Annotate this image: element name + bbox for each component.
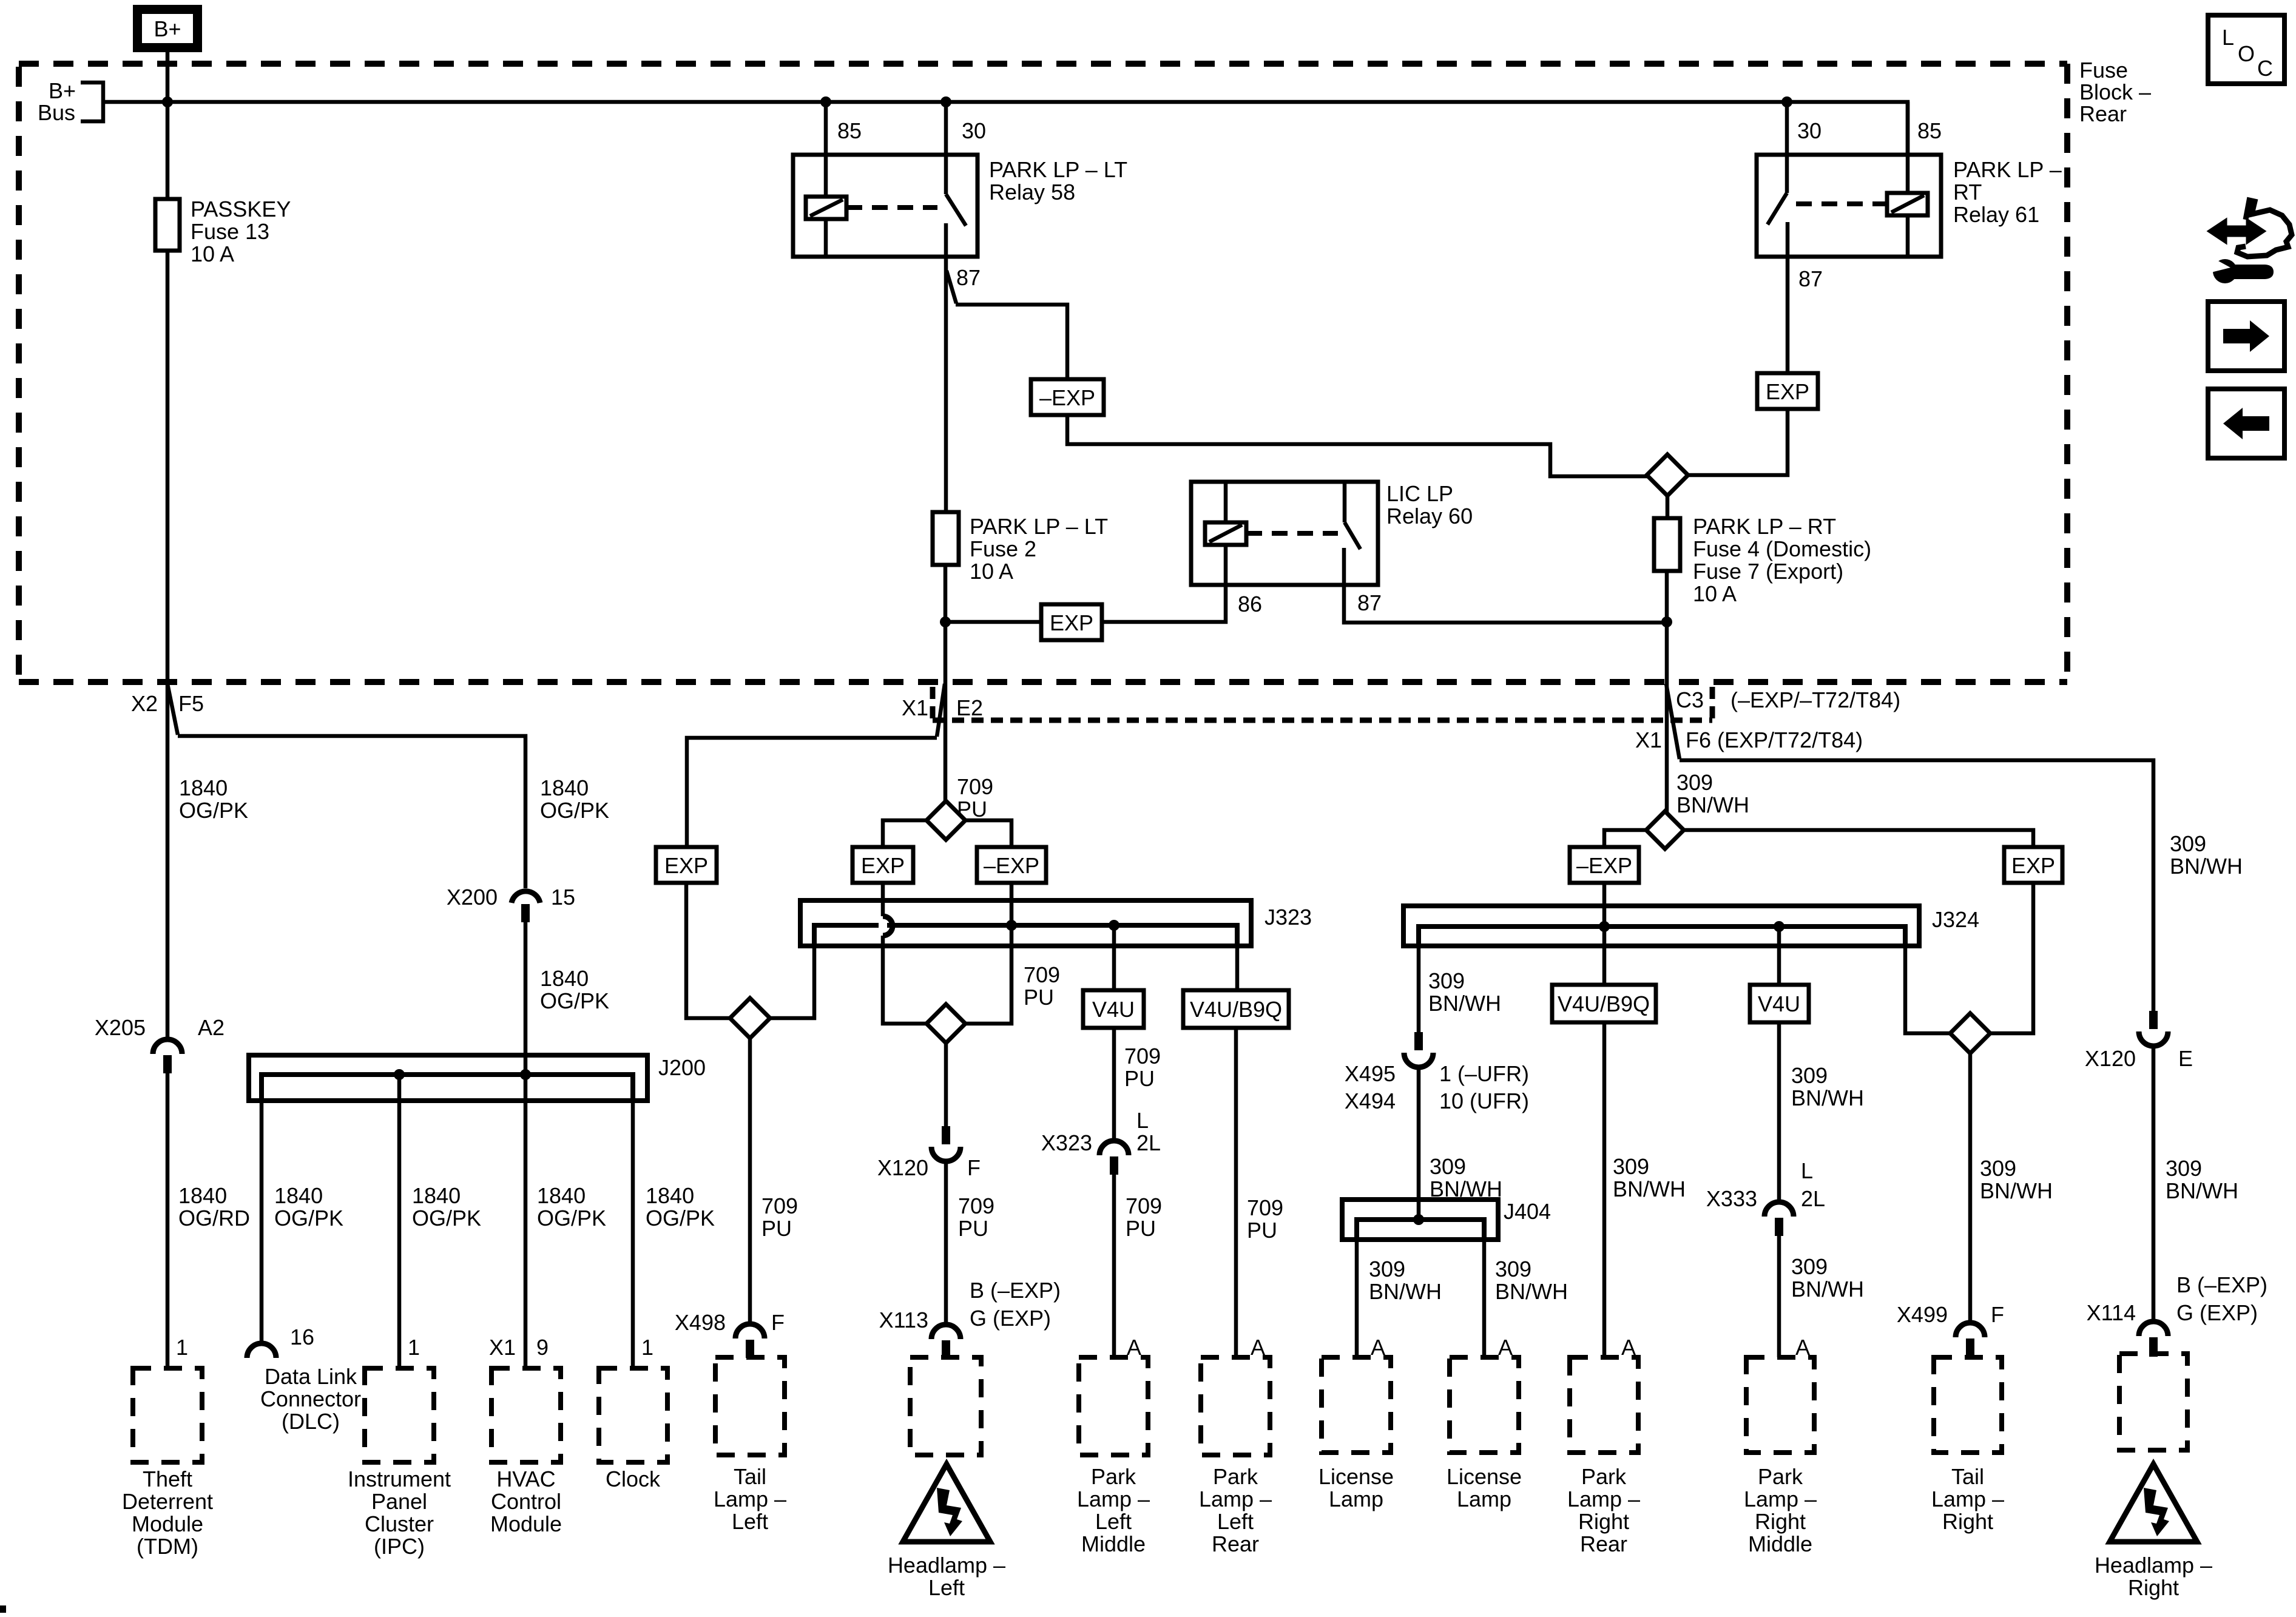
wire J200 through to HVAC — [524, 1075, 528, 1368]
svg-text:Fuse 7 (Export): Fuse 7 (Export) — [1693, 559, 1843, 584]
splice diamond below E2 — [927, 801, 965, 840]
svg-text:J404: J404 — [1504, 1199, 1551, 1224]
svg-text:Right: Right — [1942, 1509, 1993, 1534]
svg-text:709: 709 — [957, 774, 993, 799]
wire fuse2 down through E2 to diamond — [944, 565, 948, 802]
page artifact dot bottom-left — [0, 1605, 6, 1613]
svg-text:Left: Left — [1217, 1509, 1254, 1534]
svg-text:Fuse 2: Fuse 2 — [970, 536, 1036, 561]
wire X120E down to X114 — [2152, 1046, 2156, 1322]
junction HVAC on J200 bus — [520, 1069, 531, 1080]
wire EXP down and left to park-rt diamond — [1687, 409, 1788, 475]
wire C3 diamond right leg to EXP — [1684, 830, 2033, 847]
svg-text:Fuse: Fuse — [2079, 58, 2128, 83]
junction relay58 pin85 on bus — [820, 96, 831, 107]
wire -EXP down through J323 to headlamp diamond — [964, 883, 1011, 1024]
svg-text:X120: X120 — [2085, 1046, 2136, 1071]
splice diamond below C3 — [1646, 811, 1684, 849]
svg-text:Right: Right — [1755, 1509, 1806, 1534]
svg-text:Connector: Connector — [260, 1386, 361, 1411]
svg-text:O: O — [2238, 41, 2255, 66]
wire J200 left end to DLC — [260, 1075, 264, 1343]
wire -EXP down through J324 to V4U/B9Q — [1602, 883, 1607, 985]
svg-text:HVAC: HVAC — [496, 1467, 555, 1491]
wire EXP(tail) down to X498 diamond — [686, 883, 731, 1018]
wire J323 right end to V4U/B9Q — [1235, 925, 1240, 990]
svg-text:Right: Right — [2128, 1575, 2179, 1600]
wire J324 left end down to X495 — [1417, 927, 1421, 1033]
svg-text:309: 309 — [1428, 968, 1465, 993]
svg-text:709: 709 — [761, 1193, 798, 1218]
svg-text:–EXP: –EXP — [1576, 853, 1632, 878]
relay 58 PARK LP - LT : pin 85 wire — [824, 102, 828, 155]
svg-text:OG/PK: OG/PK — [179, 798, 248, 823]
junction V4U on J323 bus — [1109, 920, 1119, 931]
svg-text:309: 309 — [1495, 1257, 1531, 1281]
svg-text:–EXP: –EXP — [1039, 385, 1095, 410]
svg-text:16: 16 — [290, 1325, 314, 1349]
svg-text:BN/WH: BN/WH — [1980, 1178, 2053, 1203]
svg-text:BN/WH: BN/WH — [1613, 1176, 1686, 1201]
wire EXP(headlamp) down through J323 hop — [881, 883, 885, 916]
svg-text:OG/RD: OG/RD — [178, 1206, 250, 1230]
svg-text:87: 87 — [1798, 266, 1823, 291]
component box Theft Deterrent Module — [133, 1368, 202, 1462]
svg-text:X1: X1 — [489, 1335, 516, 1360]
svg-text:10 A: 10 A — [1693, 581, 1737, 606]
junction block J404 — [1342, 1200, 1498, 1240]
svg-text:10 (UFR): 10 (UFR) — [1439, 1089, 1529, 1113]
wire J200 right end to Clock — [631, 1075, 635, 1368]
svg-text:PU: PU — [1126, 1216, 1156, 1241]
warning triangle headlamp left — [903, 1464, 990, 1542]
relay 58 PARK LP - LT body — [793, 155, 977, 257]
svg-text:X205: X205 — [95, 1015, 146, 1040]
svg-text:BN/WH: BN/WH — [1791, 1085, 1864, 1110]
wire EXP down to tail-right diamond — [1990, 883, 2033, 1033]
fuse block rear dashed border: left edge — [16, 67, 22, 682]
svg-text:A: A — [1371, 1335, 1385, 1360]
svg-text:License: License — [1447, 1464, 1522, 1489]
option box -EXP (left headlamp relay path) — [1031, 379, 1104, 415]
svg-text:Headlamp –: Headlamp – — [888, 1553, 1005, 1578]
svg-text:Relay 61: Relay 61 — [1953, 202, 2039, 227]
option box V4U/B9Q (park lamp right rear) — [1552, 985, 1656, 1022]
svg-text:(–EXP/–T72/T84): (–EXP/–T72/T84) — [1730, 687, 1900, 712]
svg-text:2L: 2L — [1801, 1186, 1825, 1211]
svg-text:F: F — [771, 1310, 785, 1335]
svg-text:BN/WH: BN/WH — [1428, 991, 1501, 1016]
relay 58 pin 30 wire — [944, 102, 948, 155]
junction license feed on fuse4 wire — [1661, 616, 1672, 627]
svg-text:L: L — [2222, 25, 2234, 50]
svg-text:1840: 1840 — [540, 966, 589, 991]
svg-text:X113: X113 — [879, 1308, 928, 1332]
svg-text:OG/PK: OG/PK — [412, 1206, 481, 1230]
inner dotted harness boundary (-EXP/-T72/T84) — [930, 687, 936, 720]
wire -EXP down and right to park-rt diamond — [1067, 415, 1648, 476]
svg-text:X120: X120 — [877, 1155, 928, 1180]
splice diamond headlamp left — [927, 1004, 965, 1043]
wire fuse4 C3 down to diamond — [1665, 684, 1669, 813]
svg-text:Park: Park — [1758, 1464, 1803, 1489]
svg-text:Lamp –: Lamp – — [1931, 1487, 2004, 1511]
svg-text:PU: PU — [1247, 1218, 1277, 1243]
svg-text:Lamp: Lamp — [1329, 1487, 1383, 1511]
svg-text:Clock: Clock — [606, 1467, 661, 1491]
svg-text:V4U: V4U — [1092, 997, 1135, 1022]
connector X120 pin E — [2149, 1011, 2158, 1029]
svg-text:1840: 1840 — [179, 775, 228, 800]
svg-text:1 (–UFR): 1 (–UFR) — [1439, 1061, 1529, 1086]
svg-text:B (–EXP): B (–EXP) — [970, 1278, 1061, 1303]
relay 58 switch — [946, 155, 966, 257]
svg-text:License: License — [1319, 1464, 1394, 1489]
connector slant at C3/F6 — [1666, 684, 1680, 759]
connector X498 pin F — [735, 1324, 765, 1338]
svg-text:Data Link: Data Link — [265, 1364, 357, 1389]
legend hand-adjust icon double arrow — [2209, 220, 2264, 242]
svg-text:Theft: Theft — [143, 1467, 192, 1491]
svg-text:L: L — [1801, 1158, 1813, 1183]
option box EXP (tail lamp left path) — [656, 847, 717, 883]
component box Headlamp Right — [2119, 1354, 2187, 1450]
svg-text:X1: X1 — [902, 695, 928, 720]
svg-text:1840: 1840 — [412, 1183, 461, 1208]
svg-text:Module: Module — [490, 1511, 562, 1536]
wire J323 left end down to X498 diamond — [769, 925, 814, 1018]
svg-text:J324: J324 — [1932, 907, 1979, 932]
svg-text:Control: Control — [491, 1489, 561, 1514]
svg-text:EXP: EXP — [1766, 379, 1809, 404]
connector X205 pin A2 — [153, 1039, 182, 1054]
wire diamond to fuse 4 — [1666, 496, 1670, 518]
svg-text:X495: X495 — [1345, 1061, 1396, 1086]
fuse PASSKEY Fuse 13 10A — [166, 102, 170, 199]
connector X200 pin 15 — [512, 891, 540, 903]
junction B+ on bus — [162, 96, 173, 107]
svg-text:BN/WH: BN/WH — [1791, 1277, 1864, 1301]
legend hand-adjust icon hand outline — [2237, 200, 2292, 257]
svg-text:Module: Module — [132, 1511, 203, 1536]
svg-text:1840: 1840 — [646, 1183, 694, 1208]
svg-text:X494: X494 — [1345, 1089, 1396, 1113]
svg-text:Park: Park — [1581, 1464, 1627, 1489]
junction relay61 pin30 on bus — [1781, 96, 1792, 107]
svg-text:V4U/B9Q: V4U/B9Q — [1558, 991, 1650, 1016]
svg-text:X498: X498 — [675, 1310, 726, 1335]
option box -EXP (headlamp left path) — [977, 847, 1046, 883]
svg-text:Headlamp –: Headlamp – — [2095, 1553, 2212, 1578]
fuse block rear dashed border: bottom edge — [19, 679, 2067, 685]
svg-text:Cluster: Cluster — [365, 1511, 434, 1536]
svg-text:BN/WH: BN/WH — [2166, 1178, 2238, 1203]
svg-text:86: 86 — [1238, 592, 1262, 616]
svg-text:Rear: Rear — [1212, 1531, 1259, 1556]
svg-text:J323: J323 — [1264, 905, 1312, 930]
svg-text:Lamp: Lamp — [1457, 1487, 1511, 1511]
wire B+ box to bus — [166, 52, 170, 102]
svg-text:Lamp –: Lamp – — [714, 1487, 786, 1511]
svg-text:B+: B+ — [49, 78, 76, 103]
svg-text:85: 85 — [1917, 118, 1942, 143]
svg-text:309: 309 — [1676, 770, 1713, 795]
svg-text:A: A — [1795, 1335, 1810, 1360]
svg-text:B+: B+ — [154, 16, 181, 41]
component box Park Lamp Right Middle — [1746, 1357, 1814, 1453]
svg-text:309: 309 — [1980, 1156, 2016, 1181]
connector slant at E2 — [937, 684, 945, 737]
svg-text:2L: 2L — [1136, 1130, 1161, 1155]
wire diamond down to X499 — [1968, 1053, 1973, 1323]
svg-text:G (EXP): G (EXP) — [2176, 1300, 2258, 1325]
wire J323 to V4U — [1112, 925, 1116, 990]
svg-text:709: 709 — [958, 1193, 994, 1218]
component box Park Lamp Right Rear — [1570, 1357, 1638, 1453]
svg-text:PU: PU — [1024, 985, 1054, 1010]
svg-text:15: 15 — [551, 885, 575, 910]
svg-text:Instrument: Instrument — [348, 1467, 451, 1491]
warning triangle headlamp right — [2110, 1464, 2197, 1542]
option box EXP (license lamp path) — [1041, 604, 1102, 640]
svg-text:Lamp –: Lamp – — [1077, 1487, 1150, 1511]
svg-text:LIC LP: LIC LP — [1386, 481, 1453, 506]
svg-text:Rear: Rear — [1580, 1531, 1627, 1556]
svg-text:OG/PK: OG/PK — [646, 1206, 715, 1230]
wire X495 down to J404 — [1417, 1067, 1421, 1220]
legend LOC box — [2208, 15, 2284, 84]
svg-text:EXP: EXP — [861, 853, 905, 878]
splice diamond tail lamp left — [730, 998, 770, 1038]
wire X323 down to park lamp left middle — [1112, 1175, 1116, 1357]
svg-text:1: 1 — [408, 1335, 420, 1360]
svg-text:Relay 58: Relay 58 — [989, 180, 1075, 204]
junction fuse2 EXP feed — [940, 616, 951, 627]
svg-text:1840: 1840 — [537, 1183, 586, 1208]
svg-text:PU: PU — [1124, 1066, 1155, 1091]
wire fuse2 junction to EXP box — [945, 620, 1041, 624]
svg-text:Tail: Tail — [734, 1464, 766, 1489]
svg-text:Left: Left — [1095, 1509, 1132, 1534]
option box -EXP (park/license right path) — [1570, 847, 1639, 883]
svg-text:V4U/B9Q: V4U/B9Q — [1190, 997, 1282, 1022]
wire EXP to relay60 pin86 — [1102, 585, 1226, 622]
wire V4U/B9Q down to park lamp right rear — [1602, 1022, 1607, 1357]
relay 60 LIC LP body — [1191, 482, 1378, 585]
svg-text:9: 9 — [536, 1335, 549, 1360]
wire fuse4 down to border — [1665, 571, 1669, 684]
svg-text:87: 87 — [1357, 590, 1382, 615]
svg-text:Rear: Rear — [2079, 101, 2127, 126]
wire branch relay58-87 slant — [947, 271, 956, 303]
svg-text:A: A — [1127, 1335, 1141, 1360]
wire relay61 pin87 down to EXP — [1786, 257, 1790, 373]
option box EXP (headlamp left path) — [853, 847, 913, 883]
svg-text:G (EXP): G (EXP) — [970, 1306, 1051, 1331]
wire V4U down to X333 — [1777, 1022, 1781, 1203]
svg-text:709: 709 — [1024, 962, 1060, 987]
svg-text:309: 309 — [1791, 1063, 1828, 1088]
connector slant at X2/F5 — [167, 684, 178, 735]
svg-text:Deterrent: Deterrent — [122, 1489, 213, 1514]
wire X120 down to X113 — [944, 1161, 948, 1325]
svg-text:B (–EXP): B (–EXP) — [2176, 1272, 2267, 1297]
svg-text:Middle: Middle — [1748, 1531, 1812, 1556]
wire J324 right end down to tail-right diamond — [1905, 927, 1951, 1033]
svg-text:1840: 1840 — [178, 1183, 227, 1208]
svg-text:(DLC): (DLC) — [282, 1409, 340, 1434]
relay 61 switch — [1768, 155, 1788, 257]
relay 60 coil — [1224, 482, 1228, 585]
splice diamond park lamp right feed — [1647, 454, 1688, 496]
svg-text:X2: X2 — [131, 691, 158, 716]
wire F6 branch right to headlamp right — [1680, 760, 2153, 1012]
svg-text:(IPC): (IPC) — [374, 1534, 425, 1559]
svg-text:709: 709 — [1247, 1195, 1283, 1220]
svg-text:309: 309 — [1430, 1154, 1466, 1179]
svg-text:1840: 1840 — [540, 775, 589, 800]
connector X120 pin F — [942, 1126, 950, 1144]
svg-text:C: C — [2257, 56, 2273, 81]
wire X498 diamond down to tail lamp left — [748, 1038, 752, 1324]
wire J324 to V4U right — [1777, 927, 1781, 985]
fuse PARK LP - RT Fuse 4/7 10A — [1654, 518, 1680, 571]
connector X495/X494 — [1414, 1032, 1423, 1050]
svg-text:EXP: EXP — [1050, 610, 1093, 635]
svg-text:X499: X499 — [1897, 1302, 1948, 1327]
component box Park Lamp Left Rear — [1201, 1357, 1270, 1455]
fuse PARK LP - LT Fuse 2 10A — [933, 512, 959, 565]
svg-text:BN/WH: BN/WH — [1369, 1279, 1442, 1304]
svg-text:30: 30 — [1797, 118, 1822, 143]
svg-text:Right: Right — [1578, 1509, 1629, 1534]
svg-text:E: E — [2178, 1046, 2193, 1071]
legend wrench icon — [2213, 259, 2237, 283]
wire V4U down to X323 — [1112, 1028, 1116, 1142]
svg-text:A: A — [1498, 1335, 1513, 1360]
component box HVAC Control Module — [491, 1368, 561, 1462]
relay 60 switch — [1344, 482, 1360, 585]
svg-text:Panel: Panel — [371, 1489, 427, 1514]
wire F5 branch right to X200 — [178, 736, 525, 888]
svg-text:Park: Park — [1091, 1464, 1136, 1489]
svg-text:1840: 1840 — [274, 1183, 323, 1208]
wire E2 diamond left leg — [883, 820, 927, 847]
relay 61 PARK LP - RT body — [1757, 155, 1941, 257]
svg-text:709: 709 — [1126, 1193, 1162, 1218]
option box V4U (park lamp right middle) — [1750, 985, 1809, 1022]
svg-text:1: 1 — [176, 1335, 188, 1360]
fuse block rear dashed border: right edge — [2064, 64, 2070, 682]
svg-text:J200: J200 — [658, 1055, 706, 1080]
svg-text:Relay 60: Relay 60 — [1386, 504, 1473, 528]
B+ Bus bracket — [81, 83, 103, 121]
svg-text:1: 1 — [641, 1335, 653, 1360]
component box Park Lamp Left Middle — [1079, 1357, 1148, 1455]
svg-text:BN/WH: BN/WH — [1676, 792, 1749, 817]
svg-text:309: 309 — [1791, 1254, 1828, 1279]
component box Clock — [599, 1368, 667, 1462]
junction block J324 — [1403, 906, 1919, 946]
wire J404 left to license lamp 1 — [1355, 1220, 1359, 1357]
svg-text:87: 87 — [956, 265, 981, 290]
connector X114 pins B/G — [2139, 1322, 2168, 1336]
svg-text:F6 (EXP/T72/T84): F6 (EXP/T72/T84) — [1686, 727, 1863, 752]
option box V4U (park lamp left middle) — [1083, 990, 1144, 1028]
svg-text:X323: X323 — [1041, 1130, 1092, 1155]
svg-text:X333: X333 — [1706, 1186, 1757, 1211]
svg-text:Left: Left — [732, 1509, 768, 1534]
component box Tail Lamp Left — [715, 1357, 785, 1455]
svg-text:Tail: Tail — [1951, 1464, 1984, 1489]
wire X333 down to park lamp right middle — [1777, 1236, 1781, 1357]
wire X205 down to TDM — [166, 1073, 170, 1368]
svg-text:Fuse 13: Fuse 13 — [191, 219, 269, 244]
svg-text:709: 709 — [1124, 1044, 1161, 1068]
connector X323 pins L/2L — [1099, 1141, 1129, 1155]
svg-text:Block –: Block – — [2079, 79, 2151, 104]
svg-text:F5: F5 — [178, 691, 204, 716]
component box License Lamp 1 — [1322, 1357, 1391, 1453]
wire relay60 pin87 to fuse4 junction — [1344, 585, 1667, 623]
relay 61 pin 30 wire — [1785, 102, 1789, 155]
svg-text:309: 309 — [2170, 831, 2206, 856]
connector X113 pins B/G — [931, 1325, 961, 1339]
svg-text:309: 309 — [1369, 1257, 1405, 1281]
svg-text:OG/PK: OG/PK — [274, 1206, 343, 1230]
svg-text:PU: PU — [958, 1216, 988, 1241]
svg-text:EXP: EXP — [2011, 853, 2055, 878]
connector X333 pins L/2L — [1764, 1202, 1794, 1217]
junction block J323 — [800, 900, 1251, 946]
svg-text:BN/WH: BN/WH — [2170, 854, 2243, 879]
svg-text:30: 30 — [962, 118, 986, 143]
svg-text:OG/PK: OG/PK — [537, 1206, 606, 1230]
fuse block rear dashed border: top edge — [19, 61, 2067, 67]
svg-text:PARK LP –: PARK LP – — [1953, 157, 2062, 182]
svg-text:OG/PK: OG/PK — [540, 988, 609, 1013]
relay 61 PARK LP - RT : pin 85 wire from bus — [1906, 102, 1910, 155]
svg-text:C3: C3 — [1676, 687, 1704, 712]
junction -EXP on J323 bus — [1006, 920, 1017, 931]
wire C3 diamond left leg to -EXP — [1604, 830, 1646, 847]
wire fuse13 down to X2/F5 and X205 — [166, 251, 170, 1039]
svg-text:309: 309 — [1613, 1154, 1649, 1179]
wire E2 diamond right leg — [965, 820, 1011, 847]
svg-text:10 A: 10 A — [970, 559, 1013, 584]
option box EXP (right headlamp relay path) — [1757, 373, 1818, 409]
wire J404 right to license lamp 2 — [1482, 1220, 1487, 1357]
B+ power symbol box — [138, 10, 198, 48]
component box License Lamp 2 — [1450, 1357, 1519, 1453]
svg-text:RT: RT — [1953, 180, 1982, 204]
component box Headlamp Left — [910, 1357, 981, 1455]
wire relay58 pin87 down to fuse 2 — [944, 257, 948, 512]
svg-text:Left: Left — [928, 1575, 965, 1600]
connector X499 pin F — [1956, 1323, 1985, 1337]
junction V4U on J324 bus — [1774, 921, 1784, 932]
component box Instrument Panel Cluster — [365, 1368, 434, 1462]
relay 58 coil — [824, 155, 828, 257]
wire V4U/B9Q down to park lamp left rear — [1234, 1028, 1238, 1357]
svg-text:BN/WH: BN/WH — [1495, 1279, 1568, 1304]
svg-text:X1: X1 — [1635, 727, 1662, 752]
svg-text:EXP: EXP — [664, 853, 708, 878]
splice diamond tail lamp right — [1950, 1013, 1990, 1053]
svg-text:Lamp –: Lamp – — [1199, 1487, 1272, 1511]
svg-text:Bus: Bus — [38, 100, 75, 125]
svg-text:OG/PK: OG/PK — [540, 798, 609, 823]
